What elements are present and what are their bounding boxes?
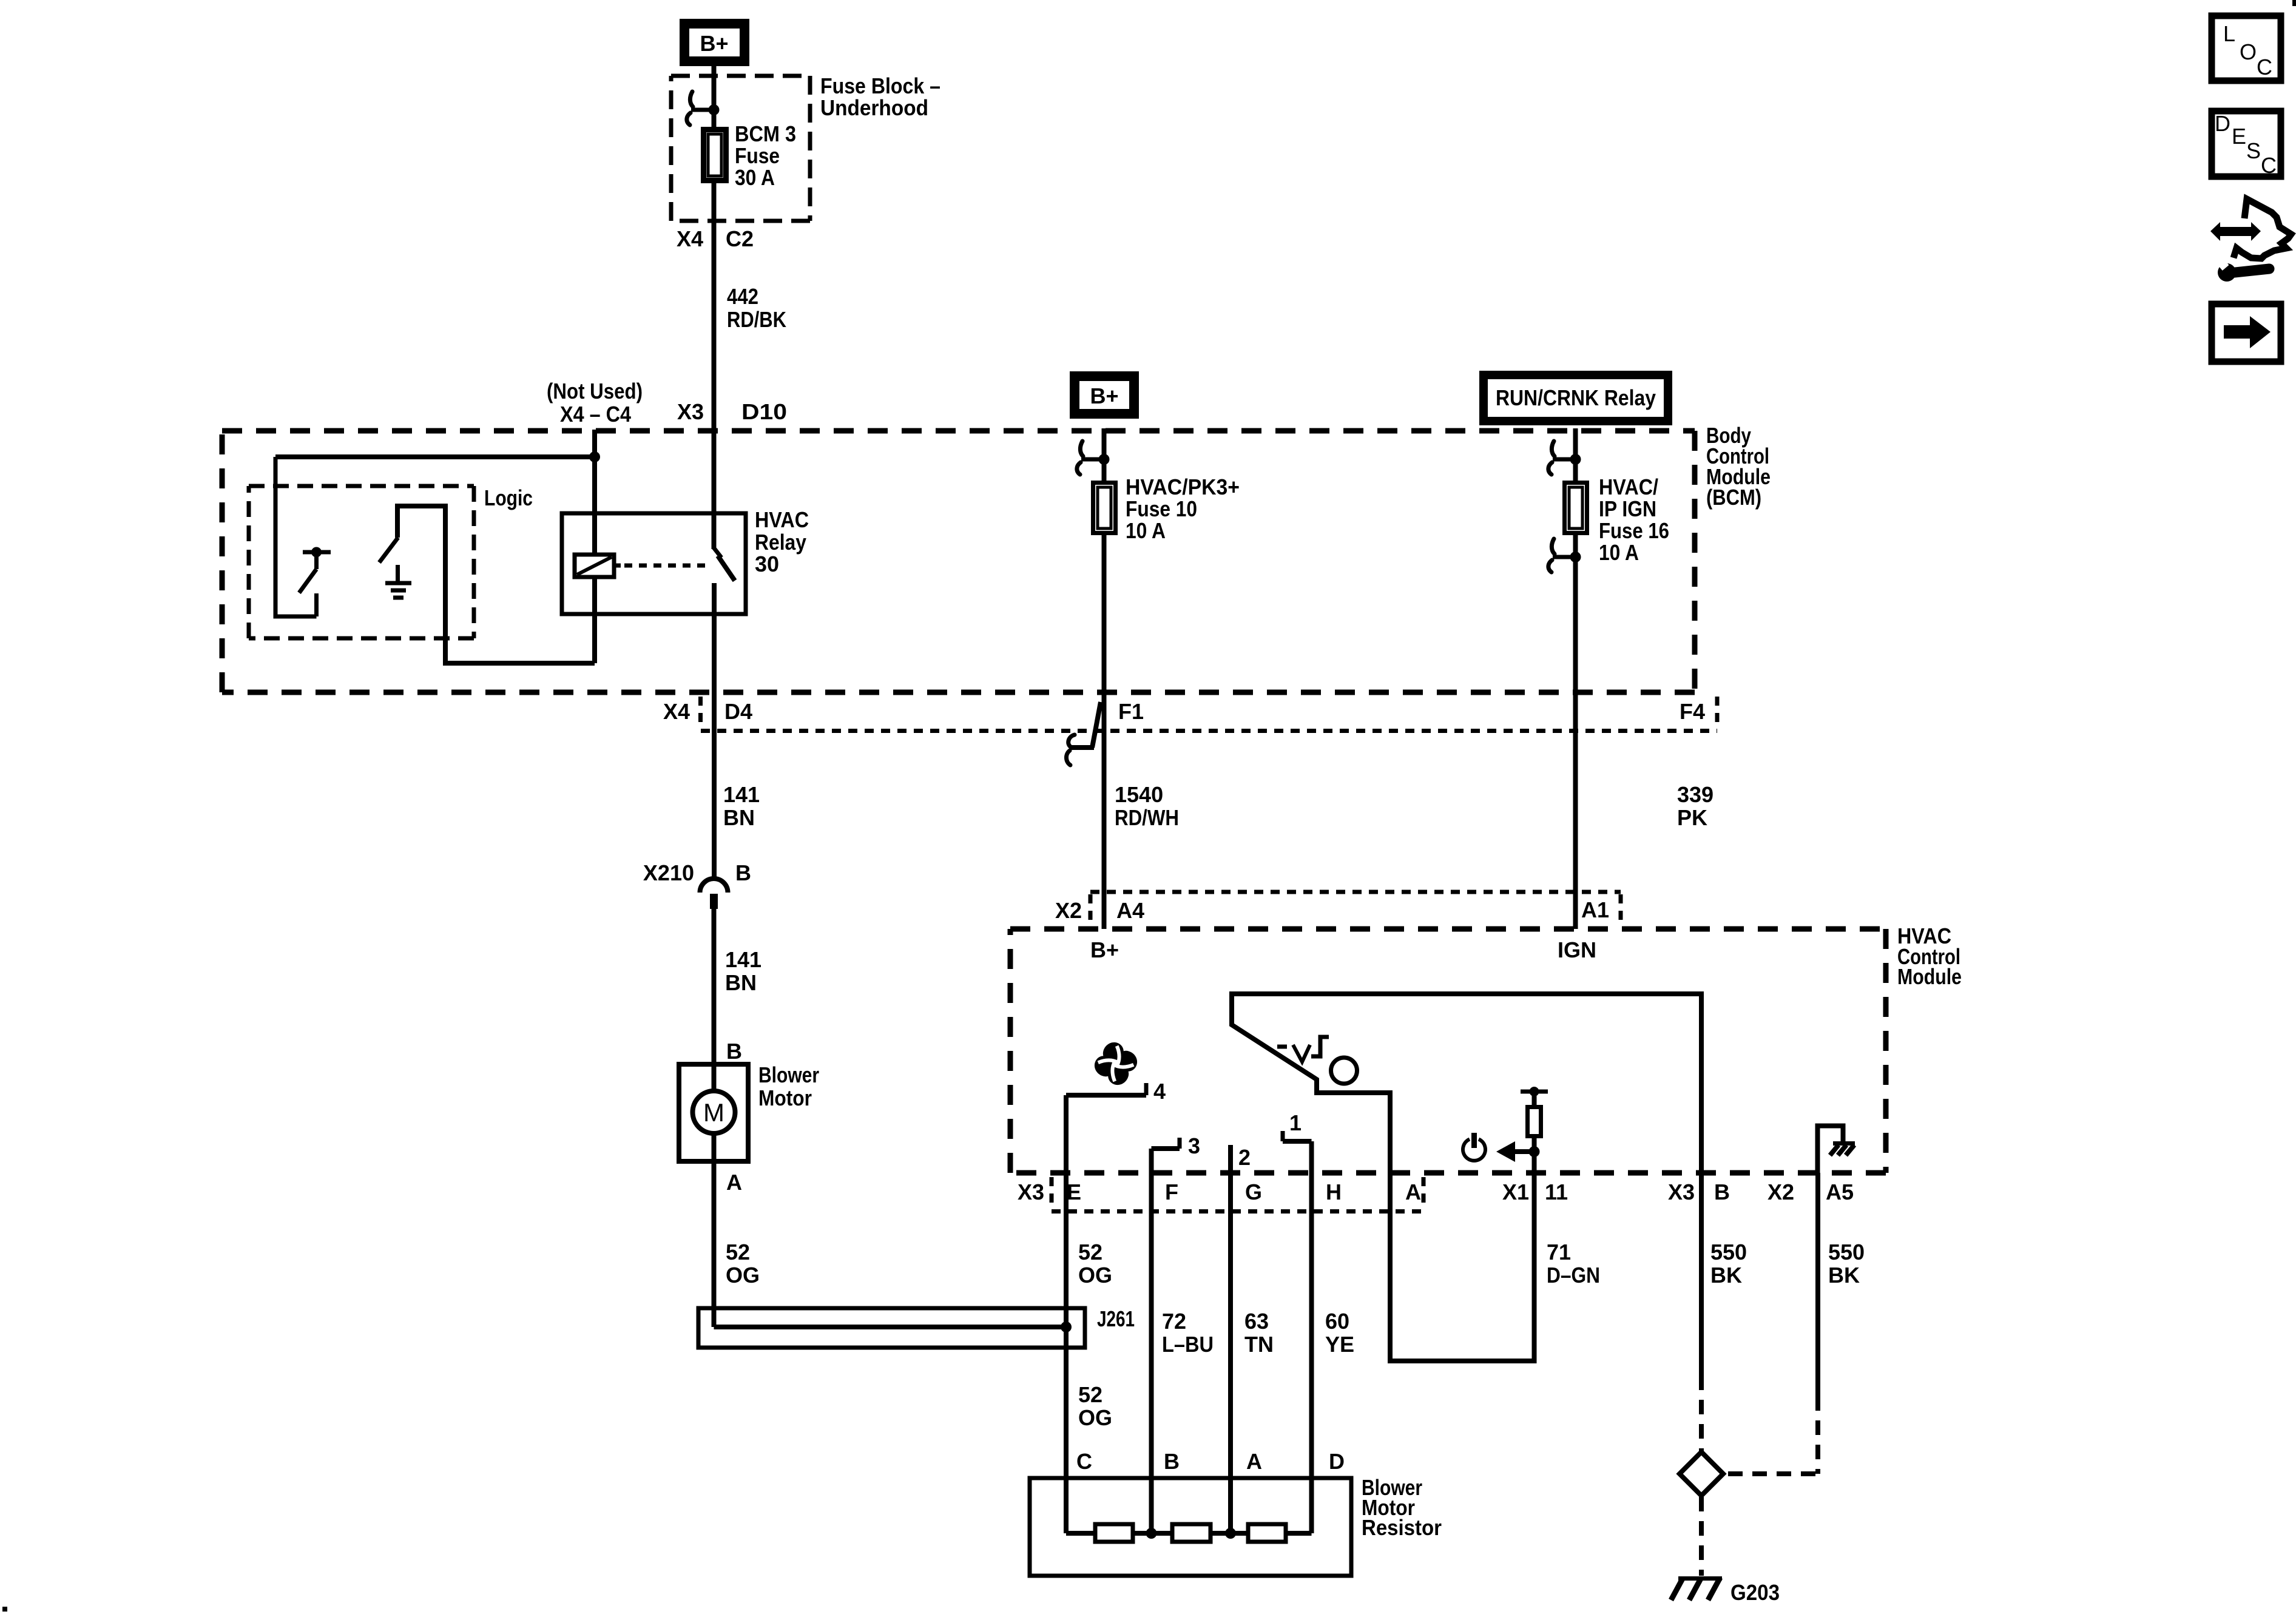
svg-text:B+: B+	[1090, 937, 1119, 962]
ground symbol in logic box	[385, 565, 411, 598]
connector row X4 D4 F1 F4	[663, 699, 1705, 724]
resistor chain inside	[1066, 1524, 1312, 1542]
svg-text:Fuse Block –: Fuse Block –	[820, 73, 940, 98]
wire relay output down	[712, 583, 717, 878]
svg-text:C: C	[2261, 153, 2277, 178]
Fuse Block - Underhood dashed box	[671, 76, 810, 221]
Blower Motor Resistor box	[1030, 1478, 1351, 1576]
svg-text:3: 3	[1188, 1133, 1200, 1158]
svg-text:A: A	[1246, 1449, 1262, 1474]
svg-text:A: A	[726, 1170, 742, 1195]
chassis ground symbol internal	[1830, 1144, 1855, 1156]
svg-text:BK: BK	[1828, 1263, 1860, 1288]
wire pin H blower speed 1	[1283, 1110, 1312, 1533]
svg-text:TN: TN	[1244, 1332, 1274, 1357]
svg-text:442: 442	[727, 284, 758, 309]
wire 442 RD/BK from fuse block to HVAC relay	[712, 181, 717, 549]
svg-text:G203: G203	[1730, 1580, 1780, 1605]
B+ power symbol box 1 (top left column)	[684, 24, 745, 61]
svg-text:F1: F1	[1118, 699, 1144, 724]
svg-text:B: B	[726, 1039, 742, 1064]
circuit breaker terminal glyph 3	[1548, 441, 1581, 474]
svg-text:Motor: Motor	[758, 1085, 812, 1110]
svg-text:X4: X4	[663, 699, 690, 724]
svg-text:HVAC: HVAC	[755, 507, 809, 532]
svg-text:1: 1	[1289, 1110, 1302, 1135]
wire 1540 RD/WH down to HVAC control module	[1102, 533, 1107, 929]
wire pin F blower speed 3	[1152, 1133, 1201, 1533]
svg-text:(BCM): (BCM)	[1706, 485, 1761, 510]
svg-text:D: D	[1329, 1449, 1345, 1474]
label BCM 3 Fuse 30 A	[735, 121, 796, 190]
label Blower Motor Resistor	[1362, 1475, 1442, 1540]
svg-text:10 A: 10 A	[1126, 518, 1166, 543]
label Fuse Block - Underhood	[820, 73, 940, 120]
svg-text:Fuse 16: Fuse 16	[1599, 518, 1669, 543]
Blower Motor	[679, 1064, 748, 1161]
svg-text:52: 52	[1078, 1382, 1102, 1407]
connector labels X4 C2	[677, 226, 754, 251]
svg-text:A5: A5	[1826, 1180, 1854, 1204]
wire 52 OG from motor to junction block	[712, 1133, 717, 1327]
wire labels 52 OG / 72 L-BU / 63 TN / 60 YE	[1078, 1240, 1112, 1288]
svg-text:H: H	[1326, 1180, 1342, 1204]
svg-text:F: F	[1165, 1180, 1178, 1204]
relay coil	[575, 555, 621, 577]
dashed wire A5 branch	[1724, 1396, 1818, 1474]
label Body Control Module (BCM)	[1706, 423, 1771, 510]
svg-text:71: 71	[1547, 1240, 1571, 1264]
junction node on coil branch	[589, 451, 600, 462]
forward arrow icon box	[2212, 304, 2281, 362]
svg-text:C2: C2	[726, 226, 754, 251]
dashed wire splice to ground	[1699, 1497, 1704, 1576]
Logic dashed box	[249, 486, 474, 638]
svg-text:PK: PK	[1677, 805, 1707, 830]
fuse BCM 3 30A	[704, 130, 726, 181]
connector row X2 A4 A1	[1055, 897, 1609, 923]
wire relay coil vertical	[592, 457, 597, 663]
svg-text:OG: OG	[1078, 1405, 1112, 1430]
svg-text:BCM 3: BCM 3	[735, 121, 796, 146]
svg-text:B: B	[1164, 1449, 1180, 1474]
svg-text:BN: BN	[723, 805, 755, 830]
svg-text:11: 11	[1545, 1180, 1568, 1204]
wire 141 BN to blower motor	[712, 909, 717, 1064]
svg-text:D: D	[2215, 111, 2230, 136]
B+ power symbol box 2 (middle column)	[1075, 376, 1134, 414]
svg-text:IGN: IGN	[1558, 937, 1596, 962]
mode icon circle	[1331, 1058, 1357, 1084]
label 52 OG below junction	[1078, 1382, 1112, 1430]
svg-text:141: 141	[723, 782, 760, 807]
svg-text:X4 – C4: X4 – C4	[560, 402, 631, 427]
LOC icon box	[2212, 16, 2281, 81]
svg-text:B: B	[735, 860, 751, 885]
svg-text:RUN/CRNK Relay: RUN/CRNK Relay	[1496, 385, 1656, 410]
dashed relay actuation link	[624, 564, 711, 568]
svg-text:X1: X1	[1502, 1180, 1529, 1204]
svg-text:RD/WH: RD/WH	[1115, 805, 1179, 830]
svg-text:X3: X3	[1668, 1180, 1695, 1204]
in-line connector X210	[643, 860, 751, 909]
mode door assembly outline	[1232, 994, 1701, 1173]
svg-text:X2: X2	[1055, 898, 1082, 923]
mode icon step	[1311, 1037, 1329, 1056]
svg-text:141: 141	[725, 947, 761, 972]
svg-text:B+: B+	[1090, 383, 1118, 408]
svg-text:Module: Module	[1897, 964, 1962, 989]
mode icon check	[1293, 1045, 1310, 1062]
svg-text:30: 30	[755, 552, 779, 576]
terminal glyph below fuse 3	[1548, 539, 1581, 572]
label Blower Motor	[758, 1062, 819, 1110]
label 550 BK	[1710, 1240, 1747, 1288]
svg-text:L: L	[2223, 21, 2235, 46]
svg-text:YE: YE	[1325, 1332, 1354, 1357]
splice diamond	[1680, 1452, 1723, 1496]
svg-text:Underhood: Underhood	[820, 95, 928, 120]
svg-text:B: B	[1714, 1180, 1730, 1204]
stub from X4-C4 into BCM	[592, 430, 597, 457]
svg-text:63: 63	[1244, 1309, 1269, 1334]
svg-text:Resistor: Resistor	[1362, 1515, 1442, 1540]
svg-text:IP IGN: IP IGN	[1599, 496, 1656, 521]
junction block J261	[698, 1306, 1135, 1348]
svg-text:E: E	[2232, 124, 2246, 149]
label HVAC/PK3+ Fuse 10 10 A	[1126, 474, 1240, 543]
page artifact dot bottom left	[2, 1607, 7, 1612]
ground bracket pin A5 internal	[1818, 1126, 1843, 1173]
svg-text:OG: OG	[1078, 1263, 1112, 1288]
svg-text:(Not Used): (Not Used)	[547, 379, 643, 403]
wire 550 BK pin A5	[1815, 1173, 1820, 1396]
wire 71 D-GN loop pin A to pin 11	[1390, 1152, 1535, 1361]
RUN/CRNK Relay box	[1484, 375, 1668, 421]
svg-text:X3: X3	[677, 399, 704, 424]
terminal glyph at F1	[1066, 702, 1101, 765]
mode icon dash	[1277, 1045, 1287, 1049]
svg-text:60: 60	[1325, 1309, 1349, 1334]
circuit breaker terminal glyph 2	[1077, 441, 1110, 474]
svg-text:O: O	[2240, 39, 2257, 64]
svg-text:B+: B+	[700, 31, 728, 56]
power button icon	[1463, 1133, 1485, 1161]
wire from BCM edge to fuse 3	[1573, 428, 1578, 482]
fan pin 4 wire	[1066, 1079, 1166, 1104]
svg-text:M: M	[703, 1098, 724, 1127]
svg-text:30 A: 30 A	[735, 165, 775, 190]
svg-text:Fuse: Fuse	[735, 143, 780, 168]
svg-text:A4: A4	[1116, 898, 1144, 923]
internal wire from coil branch to logic	[275, 454, 595, 459]
svg-text:C: C	[2257, 55, 2272, 79]
fuse HVAC/IP IGN 10A	[1565, 483, 1587, 533]
svg-text:2: 2	[1238, 1145, 1251, 1170]
resistor in control module	[1521, 1087, 1548, 1152]
adjust/repair icon: double arrow	[2210, 222, 2261, 241]
wire pin E blower speed 4	[1064, 1095, 1069, 1533]
label 52 OG	[726, 1240, 760, 1288]
wire from BCM edge to fuse 2	[1102, 428, 1107, 482]
svg-text:550: 550	[1710, 1240, 1747, 1264]
svg-text:J261: J261	[1097, 1306, 1135, 1331]
relay switch contact	[714, 548, 735, 581]
svg-text:BK: BK	[1710, 1263, 1742, 1288]
svg-text:4: 4	[1153, 1079, 1166, 1104]
adjust/repair icon: wrench	[2214, 255, 2269, 282]
svg-text:D10: D10	[741, 399, 787, 424]
wire from B+ 1 down into fuse block	[712, 62, 717, 129]
Body Control Module dashed box	[222, 431, 1695, 692]
label 442 RD/BK	[727, 284, 786, 332]
svg-text:72: 72	[1162, 1309, 1186, 1334]
svg-text:D4: D4	[724, 699, 752, 724]
connector bracket dashed	[701, 697, 1718, 731]
wire labels 141 BN / 1540 RD/WH / 339 PK	[723, 782, 760, 830]
svg-text:Relay: Relay	[755, 530, 806, 555]
svg-text:RD/BK: RD/BK	[727, 307, 786, 332]
svg-text:A1: A1	[1581, 897, 1609, 922]
svg-text:550: 550	[1828, 1240, 1865, 1264]
svg-text:X2: X2	[1768, 1180, 1794, 1204]
svg-text:S: S	[2246, 138, 2261, 163]
wire 550 BK from mode door to splice	[1699, 1173, 1704, 1376]
svg-text:X210: X210	[643, 860, 694, 885]
svg-text:Logic: Logic	[484, 485, 533, 510]
svg-text:Fuse 10: Fuse 10	[1126, 496, 1197, 521]
label 550 BK (A5)	[1828, 1240, 1865, 1288]
svg-text:C: C	[1076, 1449, 1092, 1474]
label 71 D-GN	[1547, 1240, 1600, 1288]
HVAC Control Module dashed box	[1010, 929, 1886, 1173]
fuse HVAC/PK3+ 10A	[1093, 483, 1116, 533]
wire pin G blower speed 2	[1231, 1145, 1251, 1533]
connector bracket dashed row 2	[1052, 1177, 1423, 1212]
wire 339 PK down to HVAC control module	[1573, 533, 1578, 929]
adjust/repair icon: outline shape	[2234, 199, 2291, 258]
svg-text:OG: OG	[726, 1263, 760, 1288]
svg-text:HVAC/PK3+: HVAC/PK3+	[1126, 474, 1240, 499]
connector bracket dashed row 3	[1090, 892, 1621, 927]
connector row X3 E F G H A X1 11 X3 B X2 A5	[1018, 1180, 1854, 1204]
svg-text:X3: X3	[1018, 1180, 1044, 1204]
page artifact dot top right	[2292, 0, 2296, 6]
svg-text:52: 52	[1078, 1240, 1102, 1264]
fan icon	[1090, 1038, 1141, 1089]
circuit breaker terminal glyph at fuse block 1	[687, 92, 720, 125]
connector labels X3 D10	[677, 399, 787, 424]
label 141 BN	[725, 947, 761, 995]
svg-text:E: E	[1067, 1180, 1081, 1204]
svg-text:10 A: 10 A	[1599, 540, 1639, 565]
svg-text:1540: 1540	[1115, 782, 1163, 807]
svg-text:BN: BN	[725, 970, 757, 995]
DESC icon box	[2212, 111, 2281, 178]
logic switch 2 to ground	[379, 506, 595, 663]
logic switch 1	[299, 547, 331, 617]
svg-text:L–BU: L–BU	[1162, 1332, 1214, 1357]
ground G203	[1671, 1578, 1780, 1605]
svg-text:F4: F4	[1680, 699, 1705, 724]
label HVAC Relay 30	[755, 507, 809, 576]
svg-text:D–GN: D–GN	[1547, 1263, 1600, 1288]
svg-text:52: 52	[726, 1240, 750, 1264]
svg-text:Blower: Blower	[758, 1062, 819, 1087]
wire switch1 return path	[275, 457, 317, 616]
svg-text:339: 339	[1677, 782, 1714, 807]
label HVAC Control Module	[1897, 923, 1962, 989]
label HVAC/ IP IGN Fuse 16 10 A	[1599, 474, 1669, 565]
svg-text:G: G	[1245, 1180, 1262, 1204]
svg-text:X4: X4	[677, 226, 703, 251]
svg-text:A: A	[1405, 1180, 1421, 1204]
svg-text:HVAC/: HVAC/	[1599, 474, 1658, 499]
resistor block pin labels C B A D	[1076, 1449, 1345, 1474]
HVAC Relay 30 box	[562, 513, 746, 614]
control arrow	[1496, 1141, 1540, 1162]
label (Not Used) X4 - C4	[547, 379, 643, 427]
